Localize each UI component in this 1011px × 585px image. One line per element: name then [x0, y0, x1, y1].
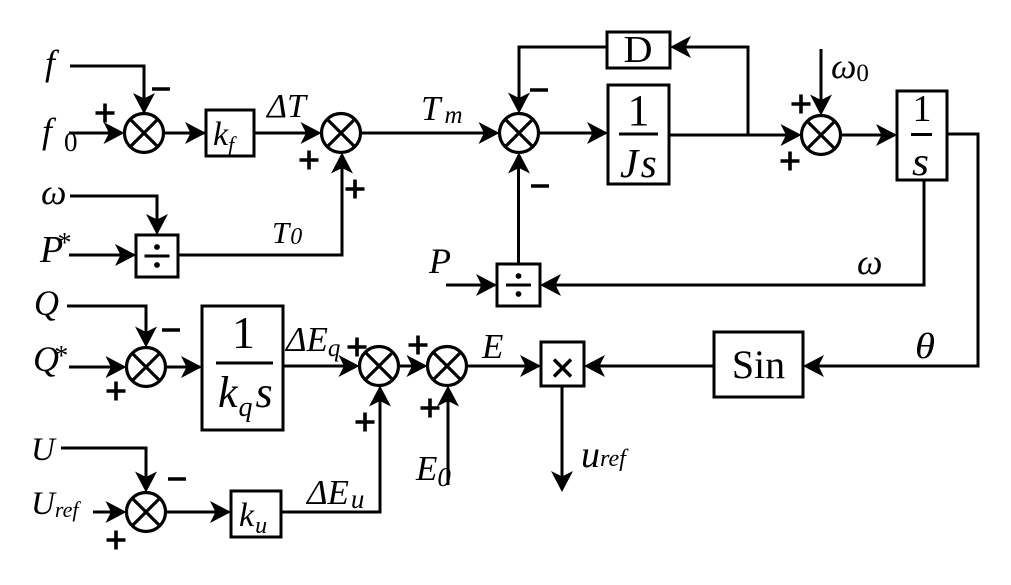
svg-text:ω: ω — [857, 242, 882, 282]
svg-text:Js: Js — [620, 140, 659, 186]
svg-text:1: 1 — [232, 307, 255, 358]
svg-text:Q: Q — [34, 283, 59, 323]
svg-text:Sin: Sin — [732, 342, 785, 387]
svg-text:θ: θ — [915, 326, 935, 366]
svg-text:1: 1 — [628, 86, 650, 135]
svg-text:s: s — [912, 139, 929, 184]
svg-text:P: P — [428, 241, 451, 281]
svg-text:1: 1 — [913, 88, 932, 130]
svg-text:U: U — [31, 432, 57, 468]
svg-text:ΔT: ΔT — [265, 88, 308, 125]
svg-text:E: E — [481, 327, 503, 366]
svg-text:D: D — [624, 29, 653, 71]
svg-text:ω: ω — [41, 172, 66, 212]
